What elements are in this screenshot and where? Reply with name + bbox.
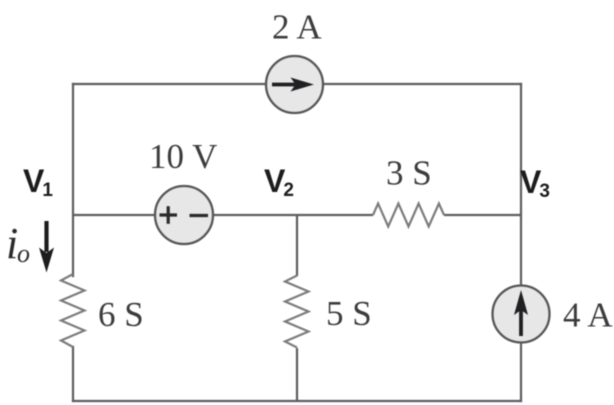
label io (output current) xyxy=(6,219,30,268)
svg-text:3 S: 3 S xyxy=(386,154,432,193)
svg-text:V1: V1 xyxy=(23,163,53,201)
wire middle vertical upper (V2 down) xyxy=(296,215,298,276)
wire left upper (V1 node vertical) xyxy=(72,84,74,276)
svg-text:V3: V3 xyxy=(520,164,550,202)
svg-text:4 A: 4 A xyxy=(563,296,613,335)
wire middle horizontal right (3S to V3) xyxy=(444,214,521,216)
resistor 6S zigzag xyxy=(61,274,85,347)
wire middle vertical lower xyxy=(296,348,298,401)
wire right (V3 vertical) xyxy=(520,84,522,401)
arrow io (downward) xyxy=(39,221,54,273)
wire bottom xyxy=(73,400,521,402)
svg-text:V2: V2 xyxy=(264,163,294,201)
voltage source 10V (circle with plus minus) xyxy=(155,186,213,244)
wire middle horizontal left (V1 to V2) xyxy=(73,214,373,216)
svg-text:2 A: 2 A xyxy=(272,8,322,47)
current source 2A (circle with right arrow) xyxy=(266,56,323,113)
resistor 3S zigzag xyxy=(373,204,444,227)
resistor 5S zigzag xyxy=(285,276,309,348)
svg-text:6 S: 6 S xyxy=(98,295,144,334)
svg-text:10 V: 10 V xyxy=(149,137,217,176)
wire left lower xyxy=(72,347,74,401)
svg-text:5 S: 5 S xyxy=(326,294,372,333)
current source 4A (circle with up arrow) xyxy=(493,286,550,343)
wire top (node V1 corner to V3 corner) xyxy=(73,83,521,85)
svg-text:o: o xyxy=(17,239,30,268)
